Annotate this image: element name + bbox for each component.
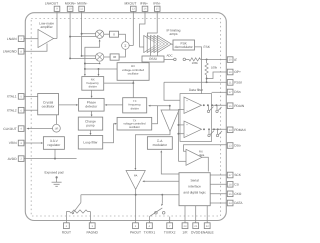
wire phase detector to charge pump (91, 111, 93, 117)
svg-text:MIXIN-: MIXIN- (77, 2, 87, 6)
resistor 100k (vertical) (205, 59, 218, 83)
svg-text:LNAIN: LNAIN (7, 37, 17, 41)
wire TX divider to phase detector (105, 104, 123, 106)
op-amp A (data filter 1) (184, 97, 202, 113)
summer (sigma) (122, 42, 134, 50)
svg-text:90: 90 (113, 55, 117, 59)
TX voltage-controlled oscillator block (117, 117, 152, 130)
svg-text:divider: divider (131, 106, 139, 110)
wire RX divider to phase detector (91, 90, 93, 98)
data filter group box (180, 88, 212, 142)
svg-text:AVDD: AVDD (8, 157, 18, 161)
svg-text:demodulator: demodulator (175, 45, 194, 49)
exposed pad ground (45, 171, 64, 187)
TX frequency divider block (123, 98, 147, 113)
3.3-V regulator block (43, 137, 64, 160)
svg-text:CKO: CKO (234, 192, 242, 196)
pin 6 XTAL2 (left) (7, 107, 38, 113)
svg-text:DVDD: DVDD (191, 231, 201, 235)
mixer Q (RF x LO) (69, 53, 104, 61)
svg-text:amplifier: amplifier (40, 25, 53, 29)
svg-text:oscillator: oscillator (128, 72, 139, 76)
svg-text:RSSI: RSSI (234, 81, 242, 85)
pin 26 CKO (right) (210, 191, 242, 197)
TX VCO output net (148, 105, 171, 124)
pin 16 IFIN1 (top) (140, 2, 149, 47)
svg-text:Loop filter: Loop filter (83, 141, 98, 145)
RX VCO output net (104, 80, 135, 97)
pin 4 CLKOUT (left) (3, 126, 52, 132)
charge pump block (78, 117, 102, 130)
svg-text:MXOUT: MXOUT (124, 2, 136, 6)
pin 3 VRIN (left) (9, 140, 43, 146)
svg-text:IFIN-: IFIN- (153, 2, 160, 6)
pin 13 MXOUT (top) (124, 2, 136, 46)
svg-text:Exposed pad: Exposed pad (45, 171, 64, 175)
pin 23 1/R (bottom) (182, 206, 188, 235)
pin 7 LNAIN (left) (7, 36, 38, 42)
svg-text:pump: pump (86, 123, 94, 127)
IF limiting amplifier chain (144, 28, 181, 52)
FSK demodulator block (173, 40, 211, 94)
op-amp B output junctions (203, 128, 219, 130)
pin 14 PDMAX (right) (202, 127, 247, 133)
svg-text:1/R: 1/R (54, 128, 58, 131)
sigma-delta modulator block (147, 137, 172, 150)
svg-text:100k: 100k (211, 65, 218, 69)
low-noise amplifier U1 (38, 22, 57, 48)
pin 8 LNAGND (left) (3, 44, 47, 55)
svg-text:PA: PA (134, 173, 138, 177)
svg-text:Σ: Σ (124, 44, 126, 48)
phase shift block 90deg (104, 49, 126, 60)
wire loop filter to TX VCO (103, 123, 117, 143)
wire charge pump to loop filter (90, 130, 92, 135)
RX voltage-controlled oscillator block (117, 63, 149, 81)
op-amp input reference rail (177, 109, 186, 161)
svg-text:interface: interface (188, 184, 201, 188)
power amplifier PA (126, 171, 145, 190)
svg-text:CLKOUT: CLKOUT (3, 127, 16, 131)
svg-text:PDAIN: PDAIN (234, 104, 245, 108)
svg-text:CS: CS (234, 183, 239, 187)
svg-text:VRIN: VRIN (9, 141, 17, 145)
phase shift block 0deg (104, 31, 126, 42)
phase detector block (79, 98, 105, 111)
svg-text:and digital logic: and digital logic (183, 190, 206, 194)
op-amp B (data filter 2) (184, 121, 202, 138)
LO distribution net (84, 39, 101, 69)
svg-text:XTAL2: XTAL2 (7, 108, 17, 112)
svg-text:TX/RX1: TX/RX1 (144, 231, 156, 235)
svg-text:oscillator: oscillator (129, 125, 140, 129)
pin 10 MIXIN1 (top) (65, 2, 76, 59)
mixer I (RF x LO) (69, 30, 104, 38)
svg-text:divider: divider (89, 84, 97, 88)
op-amp A output junctions (203, 104, 217, 106)
RX frequency divider block (82, 77, 104, 91)
pin 13 DSo (right) (184, 143, 241, 152)
op-amp A cap switches (207, 105, 221, 112)
svg-text:Serial: Serial (190, 178, 199, 182)
svg-text:LNAGND: LNAGND (3, 50, 17, 54)
svg-text:detector: detector (85, 105, 98, 109)
wire buffer to PA (134, 132, 170, 171)
svg-text:regulator: regulator (47, 143, 61, 147)
pin 2 AVDD (left) (8, 156, 77, 162)
svg-text:100k: 100k (192, 61, 199, 65)
svg-text:LNAOUT: LNAOUT (45, 2, 58, 6)
pin 3 PAOUT (bottom) (130, 189, 141, 234)
svg-text:XTAL1: XTAL1 (7, 95, 17, 99)
svg-text:OP+: OP+ (234, 70, 241, 74)
pin 27 SCK (right) (210, 172, 242, 178)
PA gain control wire (142, 180, 179, 182)
pin 25 DVDD (bottom) (191, 206, 201, 235)
svg-text:DATA: DATA (234, 201, 243, 205)
pin 5 XTAL1 (left) (7, 94, 38, 100)
svg-text:data: data (199, 154, 205, 157)
loop filter block (78, 136, 102, 150)
ADC switch contacts (164, 54, 189, 61)
svg-text:ADC: ADC (166, 54, 172, 58)
op-amp B cap switches (208, 129, 222, 136)
wire serial logic to sigma-delta (160, 150, 179, 174)
svg-text:DSo: DSo (234, 144, 241, 148)
svg-text:RSSI: RSSI (149, 57, 157, 61)
pin 28 CS (right) (210, 182, 239, 188)
svg-text:ENABLE: ENABLE (201, 231, 215, 235)
analog control bus wire (81, 194, 179, 196)
RX VCO feed wires (84, 68, 117, 76)
svg-text:FSK: FSK (204, 45, 211, 49)
svg-text:SCK: SCK (234, 173, 242, 177)
op-amp RX data slicer (186, 149, 208, 171)
pin 19 OP+ (right) (207, 69, 241, 78)
pin 4 TX/RX1 (bottom) (144, 217, 156, 235)
svg-text:MIXIN+: MIXIN+ (65, 2, 76, 6)
svg-text:amps: amps (170, 32, 178, 36)
pin 15 IFIN2 (top) (148, 2, 161, 37)
clock divider 1/R (53, 115, 61, 132)
variable resistor (PA power set) (66, 195, 90, 215)
pin 2 ROUT (bottom) (62, 212, 71, 235)
svg-text:1/R: 1/R (182, 231, 188, 235)
svg-text:PDMAX: PDMAX (234, 128, 247, 132)
svg-text:modulator: modulator (153, 143, 168, 147)
svg-text:ROUT: ROUT (62, 231, 71, 235)
svg-text:DSn: DSn (234, 90, 241, 94)
pin 20 IF (right) (207, 57, 238, 63)
pin 21 RSSI (right) (164, 80, 242, 86)
pin 16 PDAIN (right) (202, 103, 245, 109)
dashed inner boundary (31, 19, 220, 217)
pin 17 DSn (right) (212, 89, 241, 95)
svg-text:IFIN+: IFIN+ (140, 2, 148, 6)
serial interface and digital logic block (179, 173, 210, 206)
RSSI block (142, 53, 164, 63)
svg-text:PAOUT: PAOUT (130, 231, 141, 235)
svg-text:oscillator: oscillator (42, 104, 56, 108)
svg-text:Data filter: Data filter (189, 88, 204, 92)
TX VCO buffer amplifier (161, 110, 179, 132)
svg-text:PAGND: PAGND (86, 231, 98, 235)
svg-text:IF: IF (234, 58, 237, 62)
pin 24 DATA (right) (210, 200, 243, 206)
chip outline (IC body) (25, 13, 226, 221)
svg-text:TX/RX2: TX/RX2 (164, 231, 176, 235)
RSSI reference wire to data filter (164, 82, 184, 100)
TX/RX antenna switch (149, 195, 165, 217)
pin 11 MIXIN2 (top) (77, 2, 87, 56)
pin 1 PAGND (bottom) (86, 212, 98, 235)
resistor 100k (horizontal) (189, 58, 208, 65)
pin 9 LNAOUT (top) (45, 2, 60, 39)
pin 22 ENABLE (bottom) (201, 206, 215, 235)
pin 7 TX/RX2 (bottom) (164, 217, 176, 235)
crystal oscillator block (38, 94, 79, 115)
